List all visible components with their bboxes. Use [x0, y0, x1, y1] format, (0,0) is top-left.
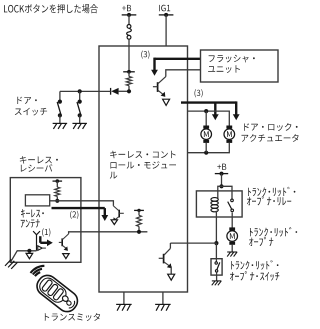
relay label ﾄﾗﾝｸ･ﾘｯﾄﾞ･ｵｰﾌﾟﾅ･ﾘﾚｰ — [247, 187, 295, 206]
antenna label ｷｰﾚｽ･ｱﾝﾃﾅ — [21, 209, 44, 228]
junction node R2 bottom — [137, 226, 141, 234]
wire thick signal (3) rail — [181, 101, 236, 103]
rf input triangle — [38, 246, 46, 251]
wire motor M1 top tap — [205, 111, 207, 125]
open emitter arrow (Q4) — [168, 274, 175, 280]
signal arrow into Q1 base — [151, 58, 158, 76]
relay coil L1 — [211, 198, 218, 217]
wire junction to trunk switch — [215, 243, 217, 259]
junction node trunk signal — [214, 241, 218, 245]
wire trunk switch to ground — [216, 275, 218, 281]
resistor R2 — [137, 210, 142, 226]
wire fuse to module — [128, 39, 130, 46]
signal arrow (1) into Q2 base — [40, 236, 53, 246]
fuse F1 — [127, 25, 132, 40]
diode D1 — [111, 88, 127, 95]
wire Q2 collector to R2 — [69, 232, 148, 234]
wire thick signal (2) — [52, 207, 105, 209]
wire SW2 to ground — [79, 115, 81, 123]
wire Q4 emitter down — [170, 266, 172, 274]
terminal IG1 — [159, 13, 174, 17]
ground (module 1) — [116, 304, 131, 310]
receiver label キーレス・レシーバ — [20, 156, 58, 172]
transmitter label トランスミッタ — [45, 313, 100, 321]
trunk switch contact — [215, 259, 220, 275]
wire SW1 to ground — [59, 115, 61, 123]
node +B (top) label — [122, 5, 131, 11]
title text: LOCKボタンを押した場合 — [4, 4, 98, 13]
keyless control module box U1 — [99, 46, 188, 292]
terminal R2 top bar — [134, 209, 144, 212]
wire module ground stub 2 — [162, 292, 164, 304]
motor M3 (trunk lid opener) — [227, 227, 238, 244]
terminal +B (top) — [122, 13, 137, 17]
flasher unit label フラッシャ・ユニット — [208, 55, 255, 73]
junction node motor M1 bottom — [204, 151, 208, 155]
wire actuator bottom rail — [188, 143, 230, 153]
wire Q4 collector up — [169, 243, 171, 248]
transistor Q3 (mirrored) — [113, 206, 124, 222]
transistor Q2 — [59, 234, 69, 251]
wire motor M3 to ground — [231, 245, 233, 252]
ground (door switch SW2) — [72, 123, 87, 128]
door switch label ドア・スイッチ — [15, 97, 47, 116]
wire antenna output to Q3 — [50, 201, 114, 206]
wire to door switch SW2 — [79, 91, 81, 100]
ground (module 2) — [155, 304, 171, 310]
transmitter key fob — [33, 272, 81, 316]
wire relay contact to motor M3 — [231, 213, 233, 228]
wire relay coil to junction — [215, 217, 217, 243]
ground (trunk motor M3) — [227, 252, 237, 257]
transistor Q1 — [153, 77, 166, 97]
resistor R1 — [126, 72, 131, 86]
signal arrow to actuator 2 — [233, 101, 240, 120]
module label キーレス・コントロール・モジュール — [110, 151, 176, 179]
junction node R3/antenna — [55, 196, 59, 203]
trunk lid opener switch box SW4 — [211, 259, 222, 275]
signal label (2) — [70, 211, 78, 219]
junction node door switches — [78, 89, 82, 93]
junction node motor M1 top — [204, 109, 208, 113]
ground (trunk switch) — [212, 281, 222, 285]
signal label (3) top — [141, 51, 149, 59]
wire to door switch SW1 — [59, 91, 61, 100]
transmitter radio waves — [31, 266, 45, 276]
signal arrow (2) into module — [101, 208, 108, 221]
junction node relay feed — [219, 184, 223, 188]
signal label (3) right — [195, 89, 203, 97]
open emitter arrow (Q2) — [63, 254, 69, 259]
node +B (trunk) label — [217, 164, 226, 170]
trunk switch label ﾄﾗﾝｸ･ﾘｯﾄﾞ･ｵｰﾌﾟﾅ･ｽｲｯﾁ — [230, 260, 279, 281]
wire motor M1 bottom tap — [205, 143, 207, 153]
wire relay contact feed — [222, 186, 233, 199]
signal arrow to actuator 1 — [212, 103, 219, 121]
wire module to trunk junction — [170, 242, 216, 244]
open arrow (antenna ground) — [26, 253, 33, 258]
door switch SW2 — [77, 100, 82, 118]
wire module ground stub 1 — [123, 292, 125, 304]
relay contact switch — [228, 199, 234, 212]
junction node antenna ground — [27, 249, 31, 253]
wire actuator top rail — [188, 111, 230, 125]
ground (door switch SW1) — [53, 123, 68, 128]
terminal internal +B bar — [123, 70, 135, 74]
wire +B feed to fuse — [128, 15, 130, 25]
transistor Q4 — [159, 248, 172, 268]
terminal +B (trunk) — [215, 172, 228, 176]
open emitter arrow (Q3) — [111, 220, 117, 225]
wire antenna ground branch — [11, 251, 37, 262]
wire +B to relay — [221, 174, 223, 187]
trunk motor label ﾄﾗﾝｸ･ﾘｯﾄﾞ･ｵｰﾌﾟﾅ — [249, 227, 297, 246]
node IG1 label — [159, 5, 170, 12]
motor M1 (door lock) — [201, 126, 212, 143]
wire D1 to door switches — [60, 90, 111, 92]
antenna symbol — [33, 231, 40, 251]
ground hatch (receiver corner) — [5, 259, 17, 269]
resistor R3 — [55, 181, 60, 196]
wire IG1 to module — [165, 15, 167, 46]
signal label (1) — [42, 228, 50, 236]
door switch SW1 — [57, 100, 62, 118]
motor M2 (door lock) — [224, 126, 235, 143]
junction node R1/D1 — [127, 86, 131, 94]
wire +B internal drop — [128, 46, 130, 72]
flasher unit box — [201, 50, 279, 82]
keyless receiver box U2 — [10, 178, 81, 263]
relay box (trunk lid opener relay) — [196, 191, 242, 217]
keyless antenna coil box — [25, 195, 49, 206]
wire thick signal (3) to flasher unit — [155, 58, 201, 60]
actuator label ドア・ロック・アクチュエータ — [242, 123, 299, 142]
wire relay coil feed — [218, 186, 222, 198]
terminal receiver internal bar — [53, 179, 63, 183]
wire Q1 collector to flasher unit — [166, 70, 201, 77]
open emitter arrow (Q1) — [163, 99, 170, 105]
